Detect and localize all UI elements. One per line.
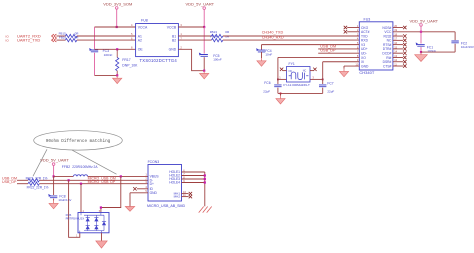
wire MH2 stub	[182, 196, 189, 198]
svg-text:A2: A2	[138, 38, 142, 42]
svg-text:10uF/16V: 10uF/16V	[58, 198, 71, 202]
no-connect X on crystal pin4	[313, 68, 316, 71]
svg-text:HOLE4: HOLE4	[169, 181, 180, 185]
pin number CH340 left 9	[357, 58, 359, 62]
no-connect X on RTS#	[403, 43, 406, 46]
wire UD+ net	[318, 48, 359, 50]
node VCCB junction	[203, 26, 205, 28]
wire TVS GND	[101, 233, 103, 241]
pin name CH340 GND	[361, 64, 369, 68]
pin number CH340 left 7	[357, 50, 359, 54]
wire FC5 bottom	[203, 57, 205, 70]
label FR21 22R 1%	[26, 176, 48, 180]
svg-text:FCON3: FCON3	[148, 160, 160, 164]
resistor FR22	[28, 182, 39, 185]
wire HOLE4	[182, 182, 205, 184]
capacitor FC4	[256, 48, 265, 52]
pin number FCON3 6	[183, 168, 185, 172]
wire FR22 to D+	[39, 183, 148, 185]
label FFB2	[62, 165, 70, 169]
wire FC1 branch	[420, 32, 422, 52]
svg-text:FFB2: FFB2	[62, 165, 70, 169]
pin name FCON3 MH1	[174, 192, 181, 196]
pin number CH340 right 16	[394, 41, 397, 45]
wire OE net	[95, 48, 136, 50]
zener D5 in U6	[102, 222, 106, 226]
svg-text:10uF/16V: 10uF/16V	[461, 45, 474, 49]
pin name FCON3 GND	[150, 191, 158, 195]
net label UART2_RXD	[17, 33, 41, 38]
pin number FCON3 10	[183, 190, 186, 194]
wire NC stub	[393, 39, 403, 41]
pin name FCON3 HOLE4	[169, 181, 180, 185]
pin name U8 OE	[138, 48, 144, 52]
power net label VDD_5V_UART (right)	[409, 19, 438, 24]
pin number CH340 right 18	[394, 32, 397, 36]
ground under CH340	[339, 69, 348, 77]
capacitor FC6	[274, 85, 281, 87]
pin name U8 B1	[172, 34, 176, 38]
value FC5 100nF	[213, 58, 222, 62]
pin number CH340 left 6	[357, 45, 359, 49]
label FB15	[59, 32, 67, 36]
pin number U8 1	[180, 32, 182, 36]
svg-text:100nF: 100nF	[213, 58, 222, 62]
pin number CH340 right 15	[394, 45, 397, 49]
wire FC4 bottom	[261, 52, 263, 58]
pin number FCON3 5	[145, 189, 147, 193]
svg-text:USB_DP: USB_DP	[320, 49, 336, 53]
pin name CH340 DCD#	[382, 51, 391, 55]
diode D4 in U6	[94, 226, 98, 230]
pin name CH340 UD-	[361, 51, 367, 55]
capacitor FC7	[319, 85, 326, 87]
port chevron row2	[52, 38, 57, 42]
svg-text:FY1: FY1	[289, 62, 295, 66]
svg-text:VDD_5V_UART: VDD_5V_UART	[185, 1, 214, 6]
label FCON3	[148, 160, 160, 164]
wire 5V rail to FC5	[203, 27, 205, 54]
label FY1	[289, 62, 295, 66]
ferrite bead FB16	[66, 38, 77, 41]
node crystal pin3 junction	[322, 79, 324, 81]
pin number FCON3 7	[183, 172, 185, 176]
pin number U8 8	[131, 46, 133, 50]
pin number CH340 left 10	[355, 62, 358, 66]
node VBUS power junction	[53, 175, 55, 177]
wire FB14 to CH340 RXD	[223, 39, 359, 41]
svg-text:MICRO_USB_AB_SMD: MICRO_USB_AB_SMD	[147, 204, 186, 208]
value FC1 100nF	[427, 49, 436, 53]
node TVS VCC corner	[100, 206, 102, 208]
svg-text:VDD_3V3_SOM: VDD_3V3_SOM	[103, 1, 132, 6]
pin number CH340 left 2	[357, 28, 359, 32]
pin name FCON3 ID	[150, 187, 154, 191]
svg-text:MH2: MH2	[174, 195, 181, 199]
capacitor FC5	[199, 53, 208, 57]
port chevron row1	[52, 34, 57, 38]
net label MICRO_USB_DM	[88, 176, 116, 180]
wire crystal pin3 stub	[310, 78, 323, 80]
wire VCC net	[393, 31, 455, 33]
pin name FCON3 D-	[150, 179, 153, 183]
label FC7	[327, 82, 333, 86]
no-connect X on CKO	[344, 26, 347, 29]
pin number U6 1	[76, 235, 78, 238]
svg-text:FR22_22R_1%: FR22_22R_1%	[27, 185, 49, 189]
pin name U8 A2	[138, 38, 142, 42]
wire VDD_5V_UART stem (top)	[203, 9, 205, 27]
pin number FCON3 4	[145, 185, 147, 189]
callout line to FFB2	[72, 150, 117, 174]
wire FB16 to A2	[77, 39, 136, 41]
node crystal pin1 junction	[277, 79, 279, 81]
wire VDD_3V3_SOM stem	[116, 9, 118, 27]
value FR17 DNP_10K	[122, 63, 138, 67]
svg-text:FU8: FU8	[141, 19, 148, 23]
node VCC junction	[420, 31, 422, 33]
diode D2 in U6	[86, 226, 90, 230]
node U8 ground junction	[203, 70, 205, 72]
net label USB_DM (bottom)	[2, 177, 17, 181]
value FC7 22pF	[327, 89, 334, 93]
ground under FR17	[113, 75, 122, 83]
chassis ground under shield bus	[199, 207, 212, 213]
svg-text:DNP_10K: DNP_10K	[122, 63, 138, 67]
wire D+ to TVS	[80, 184, 82, 213]
label FB13	[210, 30, 218, 34]
wire FC8 bottom	[53, 199, 55, 201]
pin number FCON3 1	[145, 173, 147, 177]
value FB15 0R	[75, 32, 80, 36]
power symbol VDD_5V_UART (bottom)	[52, 163, 55, 166]
svg-text:D+: D+	[150, 182, 154, 186]
connector FCON3 box	[148, 165, 182, 202]
svg-text:VDD_5V_UART: VDD_5V_UART	[40, 158, 69, 163]
diode array U6 box PRTR5V0U2X	[78, 213, 109, 233]
wire crystal ground bar	[278, 92, 323, 94]
power net label VDD_3V3_SOM	[103, 1, 132, 6]
pin number CH340 left 1	[357, 24, 359, 28]
resistor FR17	[116, 49, 119, 75]
value TXS0102DCTTG4	[140, 58, 178, 63]
pin name CH340 UD+	[361, 47, 368, 51]
svg-text:90ohm Difference matching: 90ohm Difference matching	[46, 139, 111, 144]
no-connect X on DTR#	[403, 47, 406, 50]
svg-text:PRTR5V0U2X: PRTR5V0U2X	[66, 217, 85, 221]
wire V3 net	[262, 45, 360, 50]
label FC8	[59, 195, 65, 199]
pin number CH340 left 8	[357, 54, 359, 58]
svg-text:GND: GND	[361, 64, 369, 68]
wire UART2_TXD to FB16	[56, 39, 65, 41]
ferrite bead FB14	[212, 38, 223, 41]
node FC1 ground junction	[420, 51, 422, 53]
net label CH340_RXD	[262, 35, 284, 39]
svg-text:VDD_5V_UART: VDD_5V_UART	[409, 19, 438, 24]
value FFB2 220R/100MHz 2A	[72, 165, 98, 169]
svg-text:22pF: 22pF	[263, 90, 270, 94]
no-connect X on DCD#	[403, 51, 406, 54]
value FY-12.000MHZ49-T	[283, 83, 310, 87]
label FU6	[66, 213, 72, 217]
pin number CH340 right 17	[394, 37, 397, 41]
pin number CH340 right 11	[394, 62, 397, 66]
svg-text:VCCA: VCCA	[138, 25, 148, 29]
pin name CH340 XO	[361, 56, 366, 60]
pin name CH340 V3	[361, 43, 365, 47]
pin name CH340 NC	[387, 39, 392, 43]
node D+ TVS tap	[80, 183, 82, 185]
value FC6 22pF	[263, 90, 270, 94]
wire FFB2 to VBUS pin	[88, 175, 148, 177]
node crystal ground junction	[280, 93, 282, 95]
wire R232 stub	[393, 35, 403, 37]
ferrite bead FB15	[66, 34, 77, 37]
net label CH340_TXD	[262, 31, 284, 35]
pin name U8 VCCA	[138, 25, 148, 29]
net label UART2_TXD	[17, 38, 40, 43]
node VBUS TVS tap	[120, 175, 122, 177]
svg-text:CTS#: CTS#	[383, 64, 392, 68]
pin number FY1 3	[312, 75, 314, 79]
wire FC2 branch	[421, 32, 455, 52]
no-connect X on DSR#	[403, 60, 406, 63]
port type mark IO (row2)	[6, 39, 10, 43]
pin number CH340 right 14	[394, 50, 397, 54]
diode D1 in U6	[86, 218, 90, 222]
pin name CH340 RXD	[361, 39, 369, 43]
net label USB_DP (bottom)	[2, 180, 17, 184]
pin name FCON3 MH2	[174, 195, 181, 199]
svg-text:100nF: 100nF	[104, 53, 113, 57]
no-connect X on NC	[403, 39, 406, 42]
svg-text:USB_DP: USB_DP	[2, 180, 17, 184]
pin number U8 6	[131, 36, 133, 40]
node HOLE4 junction	[204, 181, 206, 183]
wire UD- net	[318, 52, 359, 54]
pin number CH340 right 13	[394, 54, 397, 58]
pin name CH340 RTS#	[383, 43, 392, 47]
node D- TVS tap	[68, 179, 70, 181]
pin name CH340 RI#	[386, 56, 391, 60]
ground under FC1	[415, 52, 428, 61]
pin number U6 2	[83, 210, 85, 213]
pin name CH340 CKO	[361, 26, 369, 30]
wire XI net	[323, 61, 360, 63]
pin number CH340 left 3	[357, 32, 359, 36]
diode D3 in U6	[94, 218, 98, 222]
pin number FCON3 9	[183, 179, 185, 183]
value FC4 10nF	[265, 53, 272, 57]
net label USB_DP (top)	[320, 49, 336, 53]
wire DSR# stub	[393, 61, 403, 63]
pin name FCON3 D+	[150, 182, 154, 186]
inductor FFB2	[73, 175, 87, 177]
label FC1	[427, 45, 433, 49]
value PRTR5V0U2X	[66, 217, 85, 221]
value CH340T	[359, 70, 374, 75]
label FU3	[364, 17, 371, 21]
pin number U8 4	[131, 23, 133, 27]
resistor FR21	[28, 179, 39, 182]
pin number CH340 right 20	[394, 24, 397, 28]
pin number CH340 left 4	[357, 37, 359, 41]
wire DCD# stub	[393, 52, 403, 54]
no-connect X on R232	[403, 34, 406, 37]
pin name CH340 TXD	[361, 34, 368, 38]
svg-text:3: 3	[312, 75, 314, 79]
pin name CH340 R232	[384, 34, 392, 38]
wire RTS# stub	[393, 44, 403, 46]
wire VBUS to FFB2	[54, 175, 74, 177]
wire VBUS to TVS VCC	[101, 176, 121, 212]
svg-text:CH340_TXD: CH340_TXD	[262, 31, 284, 35]
node VDD_3V3_SOM junction	[116, 26, 118, 28]
ferrite bead FB13	[212, 34, 223, 37]
net label MICRO_USB_DP	[88, 180, 116, 184]
pin name U8 B2	[172, 38, 176, 42]
value FB14 0R	[225, 34, 230, 38]
wire VCCB	[178, 26, 204, 28]
power symbol VDD_5V_UART (top)	[203, 7, 206, 10]
no-connect X on NOS#	[403, 26, 406, 29]
no-connect X on ID	[133, 187, 136, 190]
wire HOLE3	[182, 178, 205, 180]
value MICRO_USB_AB_SMD	[147, 204, 186, 208]
label FC3	[103, 49, 110, 53]
wire B2 to FB14	[178, 39, 211, 41]
svg-text:FB16: FB16	[59, 35, 67, 39]
label FC6	[264, 81, 270, 85]
wire D- to TVS	[69, 180, 80, 237]
transistor U3 box CH340T	[359, 22, 393, 70]
wire VDD_5V_UART stem (right)	[420, 26, 422, 32]
no-connect X on RI#	[403, 56, 406, 59]
power net label VDD_5V_UART (bottom)	[40, 158, 69, 163]
svg-text:FR17: FR17	[122, 58, 130, 62]
label FB16	[59, 35, 67, 39]
wire CKO stub	[347, 27, 359, 29]
svg-text:IO: IO	[6, 39, 10, 43]
svg-text:TXS0102DCTTG4: TXS0102DCTTG4	[140, 58, 178, 63]
annotation ellipse	[34, 131, 123, 150]
no-connect X on CTS#	[403, 64, 406, 67]
wire shield bus	[204, 172, 206, 206]
svg-text:UART2_TXD: UART2_TXD	[17, 38, 40, 43]
label FU8	[141, 19, 148, 23]
pin name FCON3 HOLE2	[169, 174, 180, 178]
wire HOLE1	[182, 171, 205, 173]
node ground bar junction	[116, 74, 118, 76]
value FC3 100nF	[104, 53, 113, 57]
svg-text:VCCB: VCCB	[167, 25, 177, 29]
callout line to FR21	[33, 149, 47, 176]
pin name U8 VCCB	[167, 25, 177, 29]
svg-text:B2: B2	[172, 38, 176, 42]
value FC2 10uF/16V	[461, 45, 474, 49]
wire crystal pin2 stub	[283, 70, 286, 72]
no-connect X on crystal pin2	[280, 68, 283, 71]
pin number FCON3 8	[183, 175, 185, 179]
wire USB_DM to FR21	[17, 179, 28, 181]
ground under TVS	[96, 241, 107, 248]
svg-text:FU3: FU3	[364, 17, 371, 21]
port type mark IO (row1)	[6, 35, 10, 39]
node HOLE2 junction	[204, 174, 206, 176]
pin number U6 5	[99, 210, 101, 213]
pin number CH340 right 19	[394, 28, 397, 32]
ground under FC4	[257, 58, 266, 66]
capacitor FC2	[451, 41, 458, 43]
svg-text:CH340T: CH340T	[359, 70, 374, 75]
value FB16 0R	[75, 35, 80, 39]
wire FC3 branch	[94, 27, 96, 75]
svg-text:GND: GND	[169, 48, 177, 52]
capacitor FC8	[48, 194, 57, 198]
value FB13 0R	[225, 30, 230, 34]
wire B1 to FB13	[178, 35, 211, 37]
pin number CH340 right 12	[394, 58, 397, 62]
net label USB_DM (top)	[320, 44, 336, 48]
wire FB13 to CH340 TXD	[223, 35, 359, 37]
crystal FY1 box	[287, 67, 311, 83]
pin number FY1 1	[279, 75, 281, 79]
pin number FCON3 2	[145, 177, 147, 181]
capacitor FC3	[89, 48, 98, 52]
pin name FCON3 HOLE1	[169, 170, 180, 174]
wire XO net	[278, 56, 359, 58]
pin name CH340 NOS#	[382, 26, 391, 30]
ground under FC5	[200, 71, 209, 79]
wire USB_DP to FR22	[17, 183, 28, 185]
no-connect X on MH2	[189, 195, 192, 198]
svg-text:10nF: 10nF	[265, 53, 272, 57]
svg-text:FC6: FC6	[264, 81, 270, 85]
wire CH340 GND	[344, 66, 359, 69]
wire UART2_RXD to FB15	[56, 35, 65, 37]
label FC5	[213, 54, 219, 58]
no-connect X on ACT#	[344, 30, 347, 33]
svg-text:22pF: 22pF	[327, 89, 334, 93]
wire HOLE2	[182, 175, 205, 177]
wire VCCA rail	[95, 26, 136, 28]
annotation text 90ohm Difference matching	[46, 139, 111, 144]
wire U8 GND pin	[178, 49, 204, 70]
pin name CH340 VCC	[384, 30, 392, 34]
wire XO drop / FC6 branch	[277, 57, 279, 93]
wire FCON3 GND	[130, 193, 148, 207]
svg-text:NC: NC	[289, 70, 293, 73]
diode array internal wiring	[80, 213, 104, 233]
op-amp U8 box TXS0102	[136, 24, 179, 57]
wire RI# stub	[393, 56, 403, 58]
crystal FY1 glyph	[289, 70, 309, 80]
ground under FCON3 GND	[125, 207, 134, 212]
pin name U8 A1	[138, 34, 142, 38]
power net label VDD_5V_UART (top)	[185, 1, 214, 6]
wire crystal pin4 stub	[310, 70, 313, 72]
wire DTR# stub	[393, 48, 403, 50]
wire FB15 to A1	[77, 35, 136, 37]
wire NOS# stub	[393, 27, 403, 29]
pin number U8 5	[131, 32, 133, 36]
label FR22 22R 1%	[27, 185, 49, 189]
wire CTS# stub	[393, 65, 403, 67]
svg-text:GND: GND	[150, 191, 158, 195]
svg-text:FC7: FC7	[327, 82, 333, 86]
wire ID stub	[137, 188, 148, 190]
